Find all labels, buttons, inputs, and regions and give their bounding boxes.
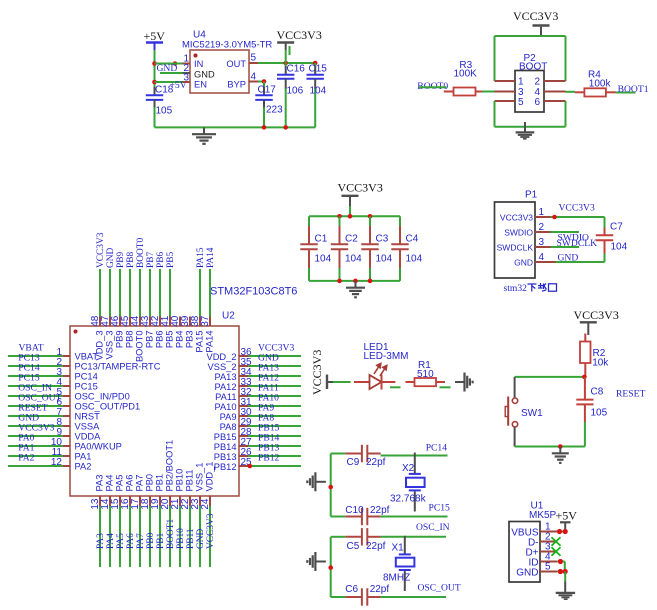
svg-text:C6: C6	[345, 584, 358, 595]
pin 2	[183, 63, 191, 74]
svg-text:X2: X2	[402, 463, 415, 474]
svg-text:P1: P1	[525, 190, 538, 201]
node PA10	[258, 393, 279, 404]
node BOOT1 net label	[616, 84, 649, 95]
pin 25 PB12	[214, 457, 301, 472]
wire GND	[556, 253, 605, 264]
svg-text:C16: C16	[287, 64, 306, 75]
svg-text:PA1: PA1	[75, 452, 92, 462]
svg-text:BOOT0: BOOT0	[136, 237, 146, 268]
svg-text:PA4: PA4	[106, 533, 116, 549]
node PB11	[186, 528, 196, 549]
svg-text:VCC3V3: VCC3V3	[277, 28, 322, 42]
power VCC3V3 (decoupling)	[338, 181, 383, 207]
pin 43 PB7	[140, 269, 155, 348]
svg-text:+5V: +5V	[144, 29, 166, 43]
svg-text:C1: C1	[315, 234, 328, 245]
svg-text:C9: C9	[347, 457, 360, 468]
wire	[333, 381, 351, 383]
node VCC3V3	[206, 513, 216, 549]
wire bracket X2 group	[331, 454, 346, 517]
ground	[192, 127, 216, 143]
svg-text:5: 5	[518, 97, 524, 108]
svg-text:1: 1	[539, 207, 545, 218]
svg-text:8MHZ: 8MHZ	[383, 573, 410, 584]
svg-text:BOOT0: BOOT0	[135, 331, 145, 363]
capacitor C15	[307, 63, 328, 127]
svg-text:PC13/TAMPER-RTC: PC13/TAMPER-RTC	[75, 362, 161, 372]
node PB8	[126, 252, 136, 268]
node PC14	[426, 443, 448, 454]
resistor R4 100k	[575, 70, 616, 97]
ground (rotated left)	[307, 472, 326, 491]
pin 30 PA9	[220, 407, 301, 422]
node PA5	[116, 533, 126, 549]
wire OSC_IN	[381, 536, 446, 538]
svg-text:PB10: PB10	[175, 469, 185, 492]
pin 3	[535, 237, 551, 248]
svg-text:PA11: PA11	[215, 392, 236, 402]
svg-text:104: 104	[310, 86, 327, 97]
wire node row	[515, 375, 587, 380]
power VCC3V3 (LED, rotated)	[310, 350, 333, 395]
node PB14	[258, 433, 280, 444]
capacitor C8 105	[576, 377, 607, 447]
svg-text:STM32F103C8T6: STM32F103C8T6	[210, 286, 297, 298]
svg-text:32.768k: 32.768k	[390, 494, 427, 505]
svg-text:PB12: PB12	[258, 453, 280, 464]
pin 5	[249, 53, 258, 64]
node VCC3V3	[96, 232, 106, 268]
capacitor C17	[255, 82, 283, 128]
svg-text:BOOT: BOOT	[519, 62, 547, 73]
svg-text:C2: C2	[345, 234, 358, 245]
svg-text:PC14: PC14	[426, 443, 448, 454]
svg-text:PB0: PB0	[145, 474, 155, 492]
svg-text:GND: GND	[194, 70, 215, 80]
power +5V	[144, 29, 166, 51]
svg-text:37: 37	[200, 315, 211, 327]
svg-text:PB6: PB6	[155, 331, 165, 349]
wire top loop	[495, 36, 566, 81]
node BOOT0 net label	[417, 81, 448, 92]
capacitor C7 104	[596, 217, 628, 262]
svg-text:PB1: PB1	[155, 474, 165, 492]
svg-text:PA0/WKUP: PA0/WKUP	[75, 442, 122, 452]
node BOOT0	[136, 237, 146, 268]
svg-text:PA5: PA5	[115, 475, 125, 492]
svg-text:105: 105	[591, 408, 608, 419]
svg-text:PB4: PB4	[175, 331, 185, 349]
wire pin4 to C17	[258, 79, 266, 84]
svg-text:OSC_IN: OSC_IN	[416, 522, 450, 533]
svg-text:PC15: PC15	[429, 503, 451, 514]
svg-text:BOOT1: BOOT1	[618, 84, 649, 95]
resistor R2 10k	[580, 334, 609, 377]
svg-text:PA3: PA3	[95, 475, 105, 492]
svg-text:PA6: PA6	[126, 533, 136, 549]
pin 29 PA8	[220, 417, 301, 432]
node PB9	[116, 252, 126, 268]
pin 41 PB5	[160, 269, 175, 348]
pin 20 PB2/BOOT1	[160, 440, 175, 567]
node PA13	[258, 363, 279, 374]
ground	[346, 281, 365, 297]
pin 1	[183, 54, 191, 65]
node OSC_OUT	[418, 582, 461, 593]
svg-text:SWDCLK: SWDCLK	[497, 243, 534, 253]
node PC13	[18, 353, 40, 364]
svg-text:PA12: PA12	[214, 382, 236, 392]
pin 5	[495, 100, 516, 102]
node PA14	[206, 247, 216, 268]
capacitor C4 104	[391, 216, 422, 281]
svg-text:PA2: PA2	[18, 453, 34, 464]
pin 38 PA15	[190, 269, 205, 353]
svg-text:PA8: PA8	[220, 422, 237, 432]
pin 1 VBUS	[540, 522, 568, 535]
svg-text:22pf: 22pf	[366, 457, 386, 468]
svg-text:PC14: PC14	[75, 372, 98, 382]
pin 16 PA6	[120, 475, 135, 567]
svg-text:PA14: PA14	[206, 247, 216, 268]
wire SWDIO	[551, 232, 590, 244]
svg-text:GND: GND	[196, 528, 206, 549]
svg-text:PB9: PB9	[116, 252, 126, 268]
pin 13 PA3	[90, 475, 105, 567]
svg-text:PA13: PA13	[214, 372, 236, 382]
pin 6 OSC_OUT/PD1	[8, 397, 140, 412]
svg-text:VCC3V3: VCC3V3	[500, 213, 533, 223]
pin 3	[495, 91, 516, 93]
pin 32 PA11	[215, 387, 301, 402]
svg-text:PA4: PA4	[105, 475, 115, 492]
svg-text:GND: GND	[157, 63, 178, 74]
svg-text:PB13: PB13	[214, 452, 237, 462]
svg-text:2: 2	[535, 77, 541, 88]
svg-text:OSC_IN/PD0: OSC_IN/PD0	[75, 392, 130, 402]
node GND	[18, 413, 39, 424]
capacitor C16	[277, 63, 305, 127]
svg-text:22pf: 22pf	[370, 584, 390, 595]
pin 23 VSS_1	[190, 463, 205, 567]
svg-text:VSSA: VSSA	[75, 422, 101, 432]
pin 4	[544, 91, 566, 93]
svg-text:6: 6	[535, 97, 541, 108]
pin 35 VSS_2	[208, 357, 301, 372]
pin 27 PB14	[214, 437, 301, 452]
pin 46 PB9	[110, 269, 125, 348]
svg-text:C5: C5	[347, 541, 360, 552]
pin 2	[535, 222, 551, 233]
pin 4	[249, 72, 258, 83]
svg-text:PB3: PB3	[185, 331, 195, 349]
pin 22 PB11	[180, 469, 195, 567]
connector U1 MK5P	[509, 501, 557, 583]
svg-text:5: 5	[545, 562, 551, 573]
pin 12 PA2	[8, 457, 91, 472]
pin 3	[183, 73, 191, 84]
wire PC15	[381, 516, 448, 518]
node PA8	[258, 413, 274, 424]
node PB5	[166, 252, 176, 268]
svg-text:3: 3	[183, 73, 189, 84]
ground	[556, 582, 575, 600]
svg-text:C10: C10	[345, 505, 364, 516]
ground	[516, 122, 535, 139]
pin 19 PB1	[150, 474, 165, 567]
node GND	[258, 353, 279, 364]
svg-text:105: 105	[156, 106, 173, 117]
svg-text:100K: 100K	[454, 69, 478, 80]
svg-text:100k: 100k	[589, 79, 612, 90]
IC U2 STM32F103C8T6 body	[70, 286, 297, 497]
svg-text:VSS_1: VSS_1	[195, 463, 205, 492]
node BOOT1	[166, 518, 176, 549]
svg-text:PC15: PC15	[75, 382, 98, 392]
pin 26 PB13	[214, 447, 301, 462]
node PA12	[258, 373, 279, 384]
pin 44 BOOT0	[130, 269, 145, 362]
svg-text:GND: GND	[514, 258, 533, 268]
pin 14 PA4	[100, 475, 115, 567]
svg-text:C18: C18	[155, 85, 174, 96]
svg-text:X1: X1	[392, 543, 405, 554]
node PB1	[156, 533, 166, 549]
node PA0	[18, 433, 34, 444]
svg-text:LED-3MM: LED-3MM	[364, 351, 409, 362]
capacitor C1 104	[300, 216, 331, 281]
node OSC_OUT	[18, 393, 61, 404]
svg-text:VSS_2: VSS_2	[208, 362, 237, 372]
pin 39 PB3	[180, 315, 195, 348]
node PA3	[96, 533, 106, 549]
svg-text:VCC3V3: VCC3V3	[96, 232, 106, 268]
node VBAT label	[19, 343, 44, 354]
node PA4	[106, 533, 116, 549]
svg-text:104: 104	[406, 254, 423, 265]
svg-text:4: 4	[251, 72, 257, 83]
pin 6	[544, 100, 566, 102]
svg-text:C17: C17	[258, 85, 277, 96]
pin 2	[544, 80, 566, 82]
op-amp U4 regulator MIC5219	[182, 30, 272, 94]
pin 24 VDD_1	[200, 462, 215, 567]
svg-text:C15: C15	[309, 64, 328, 75]
pin 21 PB10	[170, 469, 185, 567]
pin 3 PC14	[8, 367, 98, 382]
svg-text:104: 104	[315, 254, 332, 265]
svg-text:1: 1	[518, 77, 524, 88]
svg-text:VCC3V3: VCC3V3	[559, 203, 595, 214]
svg-text:C3: C3	[376, 234, 389, 245]
svg-text:PA15: PA15	[196, 247, 206, 268]
LED LED1 LED-3MM	[354, 342, 409, 390]
node PB13	[258, 443, 280, 454]
node PA6	[126, 533, 136, 549]
capacitor C6 22pf	[345, 584, 389, 606]
svg-text:EN: EN	[194, 80, 207, 90]
node PB15	[258, 423, 280, 434]
node	[262, 125, 288, 130]
node PB6	[156, 252, 166, 268]
svg-text:PA14: PA14	[205, 331, 215, 353]
svg-text:10k: 10k	[592, 358, 609, 369]
wire	[155, 63, 183, 65]
node PA15	[196, 247, 206, 268]
node junction pin25	[248, 464, 253, 469]
pin 11 PA1	[8, 447, 91, 462]
svg-text:510: 510	[417, 369, 434, 380]
ground (rotated left)	[307, 552, 326, 571]
wire	[390, 386, 401, 388]
pin 8 VSSA	[8, 417, 100, 432]
power VCC3V3 (reset)	[574, 308, 619, 335]
label stm32 download port	[504, 283, 557, 294]
node PB12	[258, 453, 280, 464]
pin 37 PA14	[200, 269, 215, 353]
svg-text:VDDA: VDDA	[75, 432, 102, 442]
pin 31 PA10	[214, 397, 301, 412]
pin 18 PB0	[140, 474, 155, 567]
svg-text:3: 3	[539, 237, 545, 248]
capacitor C2 104	[331, 216, 362, 281]
svg-text:VSS_3: VSS_3	[105, 331, 115, 360]
crystal X1 8MHZ	[383, 536, 414, 591]
pin 4 ID	[540, 552, 565, 572]
pin 15 PA5	[110, 475, 125, 567]
node PB0	[146, 533, 156, 549]
node VCC3V3	[258, 343, 294, 354]
svg-text:PB2/BOOT1: PB2/BOOT1	[165, 440, 175, 492]
svg-text:VCC3V3: VCC3V3	[310, 350, 324, 395]
svg-text:VDD_3: VDD_3	[95, 331, 105, 361]
svg-text:VCC3V3: VCC3V3	[338, 181, 383, 195]
svg-text:IN: IN	[194, 59, 203, 69]
pin 36 VDD_2	[207, 347, 301, 362]
connector P1 stm32 download port	[495, 190, 538, 279]
power VCC3V3	[277, 28, 322, 55]
svg-text:+5V: +5V	[556, 509, 578, 523]
node PC14	[18, 363, 40, 374]
ground (rotated right)	[455, 373, 473, 392]
node	[328, 485, 333, 490]
svg-text:PB15: PB15	[214, 432, 237, 442]
pin 28 PB15	[214, 427, 301, 442]
svg-text:PA7: PA7	[135, 475, 145, 492]
power +5V (USB)	[556, 509, 578, 530]
svg-text:2: 2	[539, 222, 545, 233]
svg-text:104: 104	[376, 254, 393, 265]
pin 33 PA12	[214, 377, 301, 392]
wire	[154, 50, 156, 90]
svg-text:MK5P: MK5P	[529, 510, 557, 521]
svg-text:RESET: RESET	[616, 389, 645, 400]
svg-text:BYP: BYP	[227, 80, 246, 90]
svg-text:PA5: PA5	[116, 533, 126, 549]
capacitor C9 22pf	[345, 445, 385, 468]
svg-text:PB9: PB9	[115, 331, 125, 349]
switch SW1	[505, 377, 543, 447]
wire bracket X1 group	[331, 537, 346, 597]
svg-text:VCC3V3: VCC3V3	[206, 513, 216, 549]
pin 34 PA13	[214, 367, 301, 382]
resistor R3 100K	[444, 60, 482, 96]
node PA11	[258, 383, 279, 394]
pin 10 PA0/WKUP	[8, 437, 122, 452]
wire SWDCLK	[551, 238, 598, 249]
wire bottom rail	[155, 126, 316, 128]
node PA7	[136, 533, 146, 549]
capacitor C3 104	[361, 216, 392, 281]
svg-text:PB11: PB11	[186, 528, 196, 549]
node GND	[196, 528, 206, 549]
pin 42 PB6	[150, 269, 165, 348]
wire	[440, 386, 451, 388]
svg-text:GND: GND	[106, 247, 116, 268]
node VCC3V3	[18, 423, 54, 434]
node PA2	[18, 453, 34, 464]
svg-text:VDD_1: VDD_1	[205, 462, 215, 492]
node PB10	[176, 528, 186, 549]
svg-text:SW1: SW1	[521, 408, 543, 419]
svg-text:OSC_OUT: OSC_OUT	[418, 582, 461, 593]
pin 17 PA7	[130, 475, 145, 567]
node PA1	[18, 443, 34, 454]
pin 48 VDD_3	[90, 269, 105, 360]
pin 7 NRST	[8, 407, 100, 422]
svg-text:PB7: PB7	[145, 331, 155, 349]
wire top rail	[309, 215, 400, 217]
svg-text:stm32: stm32	[504, 283, 528, 294]
svg-text:PB5: PB5	[165, 331, 175, 349]
pin 5 OSC_IN/PD0	[8, 387, 130, 402]
pin 9 VDDA	[8, 427, 101, 442]
svg-text:PA2: PA2	[75, 462, 92, 472]
svg-text:PB8: PB8	[125, 331, 135, 349]
svg-text:PB11: PB11	[185, 469, 195, 491]
svg-text:223: 223	[266, 105, 283, 116]
svg-text:PB0: PB0	[146, 533, 156, 549]
svg-text:PB12: PB12	[214, 462, 237, 472]
svg-text:12: 12	[51, 457, 63, 468]
wire bottom	[515, 444, 585, 449]
pin 1	[535, 207, 551, 218]
svg-text:GND: GND	[558, 253, 579, 264]
wire R3 to pin3	[482, 91, 495, 93]
node OSC_IN	[18, 383, 52, 394]
pin 2 PC13/TAMPER-RTC	[8, 357, 161, 372]
pin 5 GND	[540, 562, 568, 582]
wire VCC3V3	[551, 203, 605, 220]
svg-text:VCC3V3: VCC3V3	[513, 9, 558, 23]
pin 40 PB4	[170, 315, 185, 348]
node	[337, 214, 372, 219]
svg-text:PA7: PA7	[136, 533, 146, 549]
svg-text:PB5: PB5	[166, 252, 176, 268]
svg-text:PB8: PB8	[126, 252, 136, 268]
svg-text:104: 104	[611, 242, 628, 253]
power VCC3V3 (BOOT)	[513, 9, 558, 36]
svg-text:5: 5	[251, 53, 257, 64]
node PC15	[18, 373, 40, 384]
wire pin4 to R4	[566, 91, 576, 93]
pin 1	[495, 80, 516, 82]
svg-text:22pf: 22pf	[370, 505, 390, 516]
svg-text:C4: C4	[406, 234, 419, 245]
capacitor C5 22pf	[345, 528, 385, 552]
svg-text:PB6: PB6	[156, 252, 166, 268]
